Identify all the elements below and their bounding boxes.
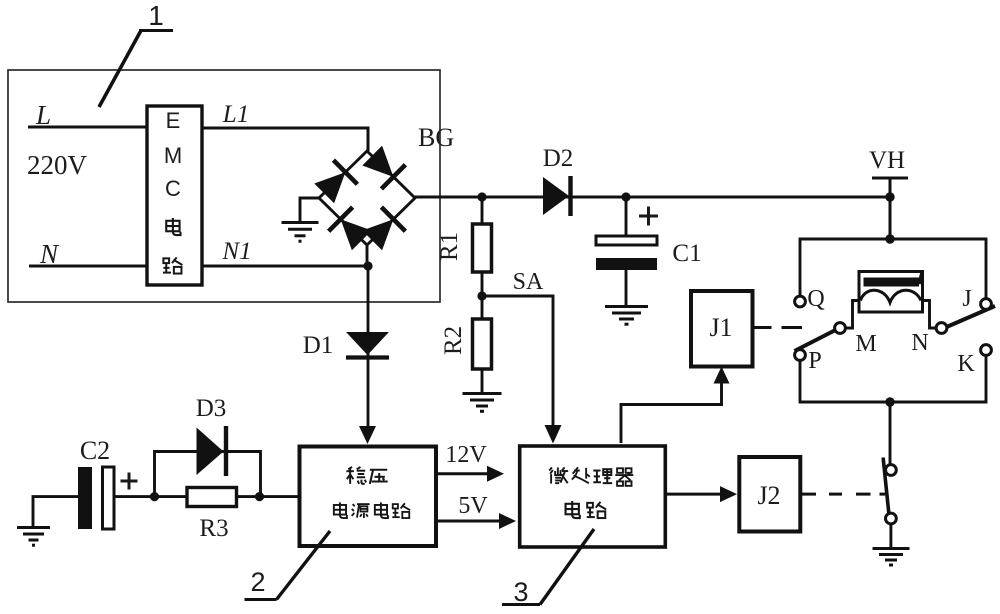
bridge diode lower-left <box>329 207 372 250</box>
junction C2/D3 <box>150 492 159 501</box>
EMC filter block outer box (dashed region 1) <box>8 70 440 302</box>
svg-text:N: N <box>911 330 928 356</box>
svg-text:D1: D1 <box>303 332 334 359</box>
ground below switch <box>873 549 910 566</box>
wire 5V with arrowhead <box>436 513 516 529</box>
bridge diode upper-left <box>314 160 357 203</box>
junction relay bottom <box>885 397 894 406</box>
junction relay top <box>885 234 894 243</box>
ground at bridge <box>282 223 319 242</box>
switch S1 lever <box>883 458 889 514</box>
switch lever P-M <box>795 330 836 351</box>
capacitor C2 right plate <box>103 467 115 529</box>
wire heater to N <box>923 301 937 329</box>
wire SA to microprocessor <box>482 296 553 427</box>
arrowhead SA into microprocessor <box>545 425 562 444</box>
dashed link J1 to lever <box>753 326 803 329</box>
C2 plus sign <box>121 473 138 490</box>
microprocessor text line1 微处理器 <box>549 467 568 483</box>
switch S1 top contact <box>886 465 897 476</box>
svg-text:J2: J2 <box>757 481 780 510</box>
junction rail/C1 <box>621 192 630 201</box>
svg-text:R3: R3 <box>199 515 228 542</box>
switch S1 bottom contact <box>886 513 897 524</box>
voltage regulator box (block 2) <box>300 447 437 547</box>
ground below C1 <box>605 307 648 325</box>
svg-text:R2: R2 <box>440 326 467 355</box>
svg-text:SA: SA <box>513 269 544 295</box>
terminal VH bar <box>872 177 908 180</box>
switch lever N-J <box>947 306 996 327</box>
microprocessor box (block 3) <box>520 446 666 547</box>
wire C2 to regulator <box>114 495 300 498</box>
junction D3/regulator <box>255 492 264 501</box>
wire relay block to switch <box>889 402 892 464</box>
diode D1 (vertical) <box>346 266 389 427</box>
contact terminal M <box>835 323 846 334</box>
wire 12V with arrowhead <box>436 466 504 482</box>
svg-text:P: P <box>808 348 821 374</box>
resistor R1 <box>473 197 492 296</box>
regulator text line2 电源电路 <box>334 502 347 518</box>
svg-text:J: J <box>962 286 971 312</box>
wire N1 from EMC to bridge bottom <box>202 265 368 268</box>
C1 plus sign <box>639 207 658 226</box>
wire D3 bypass loop <box>155 452 261 497</box>
resistor R2 <box>473 296 492 392</box>
contact terminal K <box>981 345 992 356</box>
svg-text:M: M <box>164 143 182 168</box>
bridge diode upper-right <box>362 146 405 189</box>
wire bridge left vertex to ground <box>300 198 319 221</box>
contact terminal Q <box>795 296 806 307</box>
svg-text:K: K <box>957 351 975 377</box>
capacitor C2 left plate <box>78 467 92 529</box>
heater element top bar <box>864 278 920 287</box>
svg-text:E: E <box>166 108 181 133</box>
diode D2 <box>543 176 571 216</box>
diode D3 <box>197 426 227 476</box>
ground below R2 <box>463 394 502 412</box>
svg-text:R1: R1 <box>436 232 463 261</box>
svg-text:C: C <box>165 176 181 201</box>
svg-text:D3: D3 <box>196 395 227 422</box>
ground at C2 <box>17 528 50 546</box>
svg-text:3: 3 <box>513 577 528 607</box>
svg-text:J1: J1 <box>709 313 732 342</box>
node SA junction <box>477 291 486 300</box>
regulator text line1 稳压 <box>346 467 366 484</box>
callout label 2 <box>245 531 331 600</box>
svg-text:C1: C1 <box>672 240 701 267</box>
wire L1 from EMC to bridge top <box>202 128 368 151</box>
svg-text:12V: 12V <box>445 442 487 468</box>
contact terminal J <box>981 299 992 310</box>
svg-text:2: 2 <box>250 567 265 597</box>
heater element arcs <box>861 290 922 302</box>
capacitor C1 <box>596 197 657 305</box>
svg-text:1: 1 <box>148 0 164 31</box>
resistor R3 <box>187 488 237 507</box>
bridge rectifier BG diamond <box>319 151 415 266</box>
svg-text:C2: C2 <box>80 436 110 465</box>
svg-text:L1: L1 <box>222 101 249 128</box>
microprocessor text line2 电路 <box>566 501 580 518</box>
relay coil box J1 <box>691 291 753 367</box>
EMC circuit block U-EMC <box>147 106 202 285</box>
relay contact block frame <box>800 239 986 402</box>
wire switch to ground <box>889 524 892 548</box>
svg-text:220V: 220V <box>27 150 88 180</box>
junction rail/VH <box>885 192 894 201</box>
wire N input <box>29 265 147 268</box>
arrowhead D1 wire into regulator box <box>359 426 376 444</box>
relay coil box J2 <box>739 457 800 532</box>
svg-text:BG: BG <box>418 123 454 152</box>
wire VH down to relay block <box>889 178 892 239</box>
wire C2 to ground <box>33 497 78 527</box>
heater element body <box>859 272 923 313</box>
wire microprocessor to J2 with arrowhead <box>665 486 737 502</box>
svg-text:M: M <box>855 331 876 357</box>
junction N1/bridge <box>363 261 372 270</box>
bridge diode lower-right <box>362 207 405 250</box>
svg-text:5V: 5V <box>458 493 488 519</box>
dashed link J2 to switch <box>801 493 886 496</box>
svg-text:N1: N1 <box>221 238 251 265</box>
wire L input <box>28 126 147 129</box>
wire M to heater <box>845 301 859 329</box>
callout label 3 <box>502 529 594 607</box>
contact terminal P <box>795 350 806 361</box>
junction rail/R1 <box>477 192 486 201</box>
svg-text:VH: VH <box>869 147 905 174</box>
wire microprocessor to J1 with arrowhead <box>621 367 730 444</box>
svg-text:D2: D2 <box>543 145 574 172</box>
main DC rail wire <box>415 196 888 199</box>
contact terminal N <box>936 323 947 334</box>
callout label 1 <box>99 0 173 107</box>
svg-text:Q: Q <box>807 286 824 312</box>
heater element bar corner tie <box>919 273 922 285</box>
